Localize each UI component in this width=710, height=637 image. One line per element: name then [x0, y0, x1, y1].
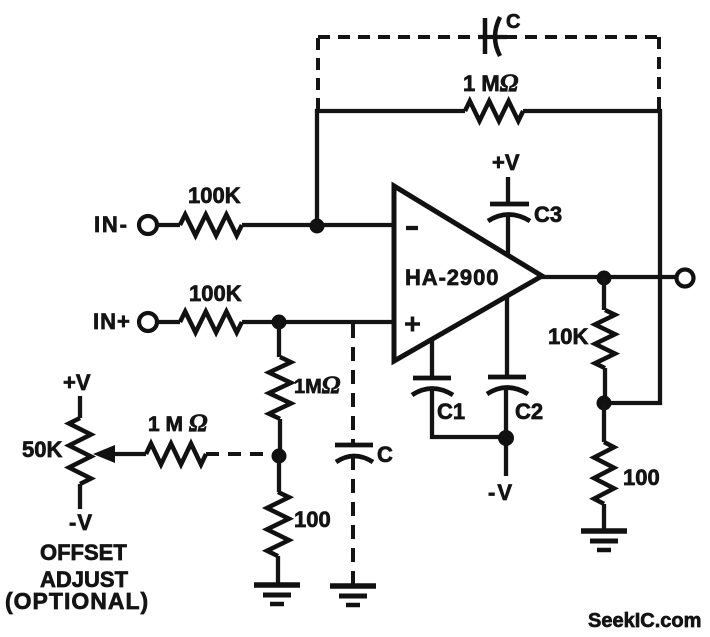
- node junction offset adjust tap: [272, 449, 287, 464]
- capacitor C (feedback, dashed branch): [478, 17, 507, 56]
- svg-text:+V: +V: [63, 370, 91, 395]
- pin minus symbol: [406, 226, 418, 230]
- resistor R feedback 1 MΩ: [465, 101, 523, 121]
- svg-text:-V: -V: [488, 480, 514, 505]
- node junction output / 10K: [597, 271, 612, 286]
- svg-text:OFFSET: OFFSET: [40, 540, 127, 565]
- capacitor C (dashed branch to ground): [335, 445, 373, 462]
- wire dashed feedback-capacitor branch, horizontal right of C: [505, 35, 659, 39]
- ground (left, under 100): [254, 582, 300, 588]
- svg-text:SeekIC.com: SeekIC.com: [588, 610, 701, 632]
- svg-text:10K: 10K: [548, 324, 588, 349]
- wire C1 to -V node: [432, 388, 506, 437]
- resistor 10K: [595, 310, 615, 368]
- node junction inverting input / feedback: [310, 219, 325, 234]
- svg-text:100: 100: [294, 507, 331, 532]
- svg-text:1 MΩ: 1 MΩ: [463, 70, 519, 97]
- svg-text:+V: +V: [492, 150, 520, 175]
- svg-text:C: C: [377, 442, 393, 467]
- wire IN- resistor to op-amp inverting input: [242, 223, 394, 227]
- wire 100 to ground: [602, 504, 606, 530]
- resistor 1 MΩ (offset, horizontal): [146, 444, 206, 465]
- wire 1MΩ to offset node: [278, 419, 282, 456]
- capacitor C3: [488, 204, 530, 221]
- resistor 1MΩ (vertical, bias): [269, 357, 291, 419]
- wire arrow shaft to pot wiper: [110, 452, 146, 456]
- wire 100 to ground: [276, 556, 280, 584]
- svg-text:C3: C3: [534, 202, 562, 227]
- wire C3 to op-amp V+ pin: [506, 214, 510, 254]
- svg-text:IN+: IN+: [93, 309, 131, 334]
- svg-text:100K: 100K: [188, 183, 241, 208]
- resistor 100K (IN- input): [180, 215, 242, 236]
- svg-text:HA-2900: HA-2900: [405, 265, 499, 290]
- terminal IN- input circle: [139, 216, 157, 234]
- svg-text:C: C: [506, 11, 520, 33]
- wire dashed feedback-capacitor branch, horizontal left of C: [318, 35, 478, 39]
- wiper arrow head: [93, 445, 115, 463]
- ground (right, under 100): [581, 528, 627, 534]
- wire feedback right horizontal and vertical down to divider tap: [523, 111, 660, 403]
- wire tap node down to 100: [602, 403, 606, 442]
- wire C2 down to -V stub: [504, 387, 508, 476]
- wire op-amp V- pin down to C2: [505, 296, 509, 376]
- node junction non-inverting input / bias network: [272, 315, 287, 330]
- wire IN+ terminal to resistor: [157, 320, 180, 324]
- terminal output circle: [677, 270, 694, 287]
- svg-text:IN-: IN-: [94, 212, 129, 237]
- capacitor C2: [487, 377, 528, 394]
- wire IN+ node down to 1MΩ: [277, 322, 281, 357]
- svg-text:(OPTIONAL): (OPTIONAL): [5, 588, 149, 614]
- svg-text:1 M Ω: 1 M Ω: [148, 410, 208, 437]
- capacitor C1: [412, 378, 453, 395]
- pin plus symbol: [405, 317, 420, 332]
- svg-text:C1: C1: [437, 399, 465, 424]
- svg-text:C2: C2: [515, 399, 543, 424]
- wire IN+ resistor to op-amp non-inverting input: [242, 320, 394, 324]
- node junction C1/C2/-V: [498, 430, 514, 446]
- wire dashed feedback-capacitor branch, left vertical: [316, 37, 320, 110]
- wire pot to -V: [78, 484, 82, 509]
- svg-text:-V: -V: [69, 510, 93, 535]
- wire 10K to divider tap node: [603, 368, 607, 403]
- wire dashed offset link: [206, 452, 272, 456]
- wire +V to C3: [506, 177, 510, 203]
- ground (under dashed C): [330, 583, 376, 589]
- potentiometer 50K element: [69, 418, 91, 484]
- wire dashed feedback-capacitor branch, right vertical: [657, 37, 661, 112]
- wire +V to pot: [78, 396, 82, 418]
- wire offset node down to 100: [277, 456, 281, 492]
- resistor 100 (right): [594, 442, 614, 504]
- wire op-amp output: [540, 275, 676, 279]
- svg-text:100: 100: [623, 465, 660, 490]
- svg-text:1MΩ: 1MΩ: [294, 372, 341, 399]
- terminal IN+ input circle: [139, 313, 157, 331]
- op-amp HA-2900 triangle: [394, 186, 542, 361]
- wire op-amp pin down to C1: [430, 339, 434, 378]
- node junction divider tap: [597, 396, 612, 411]
- wire dashed from C down to ground: [351, 456, 355, 584]
- svg-text:100K: 100K: [189, 281, 242, 306]
- resistor 100 (left, bias): [267, 492, 289, 556]
- wire output node down to 10K: [602, 278, 606, 310]
- svg-text:50K: 50K: [22, 437, 62, 462]
- wire IN- terminal to resistor: [157, 223, 180, 227]
- resistor 100K (IN+ input): [180, 312, 242, 333]
- wire dashed from IN+ line down to C: [351, 324, 355, 443]
- wire feedback left vertical (inverting node up to 1M): [317, 111, 465, 225]
